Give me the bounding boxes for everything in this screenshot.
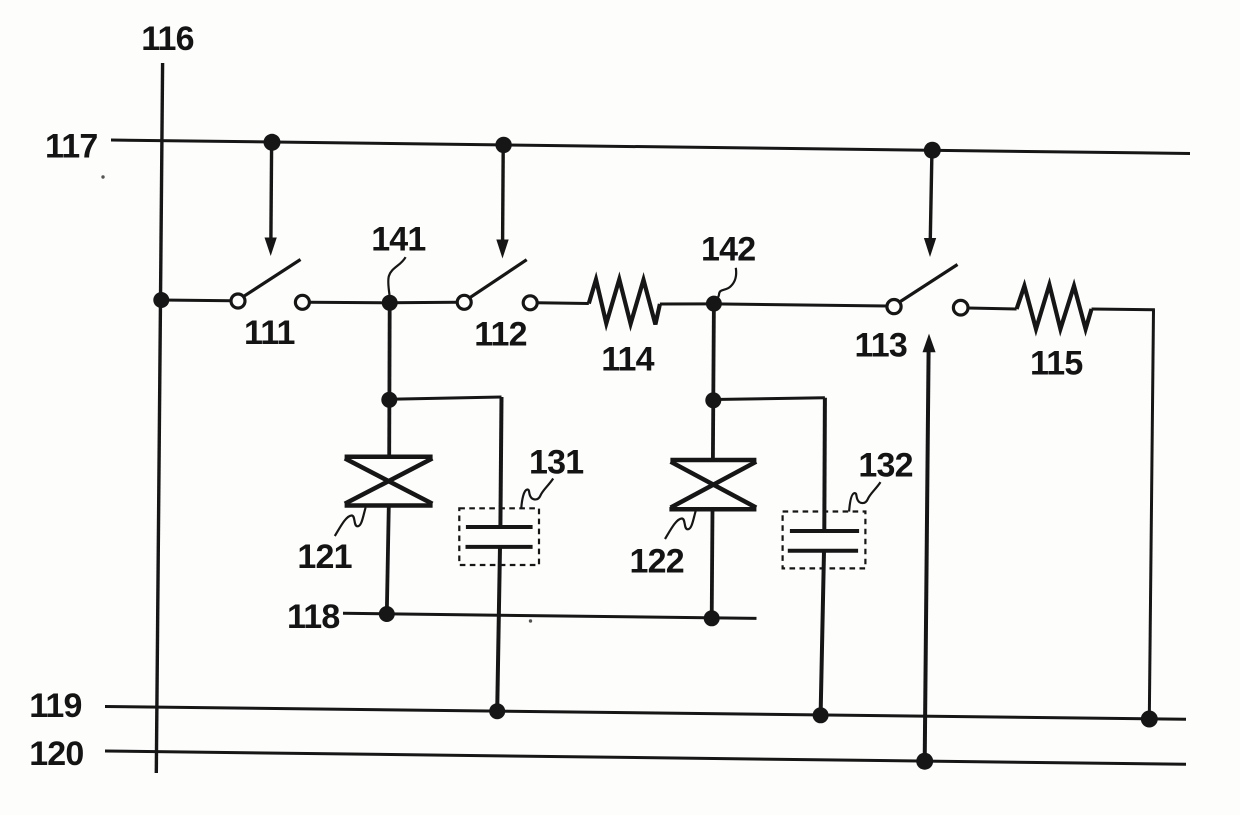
svg-text:113: 113 (855, 327, 907, 365)
leader for label 122 (665, 511, 696, 540)
node 141 (382, 295, 398, 311)
leader for label 121 (335, 508, 366, 537)
svg-text:142: 142 (701, 230, 755, 268)
svg-text:121: 121 (297, 538, 351, 576)
leader for label 131 (521, 479, 553, 509)
svg-text:114: 114 (601, 340, 654, 378)
wire: element 122 down to bus 118 (710, 509, 715, 618)
wire: capacitor 132 top lead (822, 398, 827, 531)
node: junction of bus 116 with switch row (153, 292, 169, 308)
svg-text:117: 117 (45, 128, 97, 166)
node: element 121 on bus 118 (379, 606, 395, 622)
wire: node 141 to switch 112 (390, 301, 458, 305)
wire: resistor 115 to right corner (1092, 308, 1155, 312)
node: element 122 on bus 118 (704, 610, 720, 626)
wire: node 142 down to element 122 (713, 304, 714, 460)
element 122 (bidirectional element, bowtie symbol) (669, 460, 756, 509)
node: capacitor 132 on bus 119 (813, 707, 829, 723)
leader for label 141 (388, 257, 405, 295)
node 142 (706, 296, 722, 312)
speck: scan noise dot near line 118 (529, 619, 532, 622)
node: junction dot on bus 117 (right) (924, 142, 941, 159)
svg-text:118: 118 (287, 598, 339, 636)
node: up arrow on bus 120 (916, 753, 933, 770)
svg-text:112: 112 (474, 316, 526, 354)
wire: right vertical down to bus 119 (1149, 310, 1153, 719)
wire: node 142 to switch 113 (714, 304, 887, 306)
arrow: down arrow from bus 117 (right) (924, 153, 936, 257)
arrow: down arrow from bus 117 (left) (265, 146, 277, 256)
node: capacitor 131 on bus 119 (489, 703, 505, 719)
svg-text:122: 122 (630, 543, 684, 581)
dashed box around C131 (459, 508, 539, 565)
element 121 (bidirectional element, bowtie symbol) (345, 457, 433, 506)
node: junction dot on bus 117 (left) (264, 134, 281, 151)
wire: from bus 116 to switch 111 (161, 299, 231, 303)
wire: capacitor 131 top lead (500, 397, 501, 527)
arrow: up arrow from bus 120 (923, 334, 936, 762)
svg-text:141: 141 (371, 221, 425, 259)
wire: element 121 down to bus 118 (387, 506, 389, 615)
wire: bus 120 (105, 751, 1186, 764)
wire: capacitor 132 bottom lead down to bus 119 (821, 551, 824, 716)
wire: bus 118 (343, 613, 757, 618)
speck: scan noise dot below 117 (101, 175, 104, 178)
svg-text:119: 119 (29, 687, 81, 725)
node: junction dot on bus 117 (middle) (495, 137, 511, 153)
resistor R114 (589, 279, 660, 324)
wire: branch from node to capacitor 131 (389, 397, 501, 399)
svg-text:115: 115 (1030, 345, 1082, 383)
wire: vertical bus 116 (156, 63, 162, 773)
svg-text:116: 116 (141, 20, 193, 58)
wire: node 141 down to element 121 (387, 303, 391, 457)
arrow: down arrow from bus 117 (middle) (496, 148, 508, 259)
svg-text:120: 120 (29, 735, 83, 773)
svg-text:132: 132 (858, 447, 912, 485)
node: branch junction above element 121 (381, 392, 397, 408)
capacitor C131 (466, 527, 533, 547)
dashed box around C132 (783, 512, 866, 569)
resistor R115 (1017, 285, 1092, 329)
leader for label 132 (849, 482, 880, 512)
wire: switch 113 to resistor 115 (968, 308, 1017, 309)
switch 112 (457, 260, 537, 310)
node: right vertical on bus 119 (1141, 711, 1158, 728)
wire: horizontal bus 117 (111, 140, 1190, 154)
wire: branch from node to capacitor 132 (713, 398, 825, 400)
wire: resistor 114 to node 142 (660, 302, 714, 305)
svg-text:111: 111 (244, 314, 295, 352)
capacitor C132 (788, 531, 859, 551)
node: branch junction above element 122 (705, 392, 721, 408)
svg-text:131: 131 (529, 444, 583, 482)
leader for label 142 (715, 268, 736, 302)
wire: switch 112 to resistor 114 (537, 301, 589, 305)
wire: bus 119 (105, 707, 1186, 720)
wire: switch 111 to node 141 (309, 301, 389, 305)
wire: capacitor 131 bottom lead down to bus 119 (497, 547, 500, 711)
switch 111 (231, 260, 309, 310)
switch 113 (887, 265, 968, 316)
